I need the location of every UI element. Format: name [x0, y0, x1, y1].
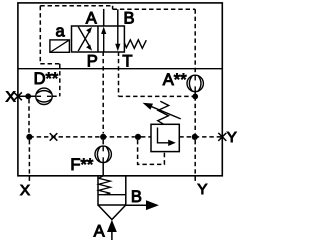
svg-text:Y: Y [197, 181, 207, 198]
pilot line relief to Y node [179, 136, 192, 138]
port Y plug cross [218, 133, 226, 141]
orifice A** to junction [194, 92, 196, 97]
svg-text:X: X [20, 182, 30, 199]
solenoid a diagonal [51, 40, 69, 52]
pilot line X branch to orifice D [52, 95, 60, 97]
svg-text:B: B [131, 188, 142, 206]
housing divider line [18, 68, 222, 70]
pilot line to relief valve [141, 136, 151, 138]
pilot line P down [102, 52, 104, 134]
orifice A** [187, 75, 203, 91]
pilot relief valve body [151, 124, 179, 151]
svg-text:D**: D** [34, 70, 59, 88]
pilot line B to A** orifice top run [113, 8, 196, 10]
plug cross lower line [50, 133, 58, 141]
pilot line P to orifice F [102, 140, 104, 146]
cartridge poppet seat V [98, 205, 126, 220]
cartridge spring [99, 176, 111, 195]
pilot enclosure dashed bottom-left stub [40, 63, 60, 65]
junction node lower X [26, 134, 32, 140]
pilot valve right box down arrow B to T [115, 26, 120, 51]
pilot line X down branch [28, 99, 30, 134]
pilot line down to A** orifice [194, 9, 196, 75]
pilot valve spring [124, 40, 146, 49]
X line into block [18, 95, 36, 97]
pilot line X branch vertical [59, 64, 61, 97]
junction node X line [25, 93, 31, 99]
junction node P line [100, 134, 106, 140]
svg-text:Y: Y [227, 129, 237, 146]
svg-text:B: B [124, 9, 135, 27]
relief valve flow path arrow [158, 128, 176, 147]
cartridge divider [98, 194, 126, 196]
pilot line Y to right edge [195, 136, 223, 138]
port X plug cross [14, 92, 22, 100]
pilot valve body U1 [72, 26, 125, 52]
relief valve sense loop [138, 140, 165, 164]
solenoid a box [50, 40, 70, 52]
pilot line T down [118, 52, 120, 97]
relief valve spring [158, 101, 169, 124]
junction node T-Y [192, 94, 198, 100]
pilot valve left box crossed arrow 2 [78, 27, 92, 51]
pilot line lower horizontal [29, 136, 134, 138]
svg-text:T: T [122, 52, 132, 70]
relief valve adjustment arrow [143, 103, 181, 119]
orifice D [36, 88, 52, 104]
port B arrow [146, 200, 159, 210]
port B line [126, 204, 147, 206]
junction node Y lower [192, 134, 198, 140]
pilot valve port A line [103, 9, 105, 26]
housing block outer rectangle [18, 3, 222, 176]
junction node relief left [135, 134, 141, 140]
svg-text:A: A [94, 223, 105, 240]
port A line [111, 231, 113, 240]
pilot valve mid line [97, 26, 99, 52]
pilot line T horizontal run [119, 95, 196, 97]
pilot line Y vertical [194, 96, 196, 133]
pilot enclosure dashed left edge [39, 6, 41, 64]
X port drop line [28, 140, 30, 182]
port A arrow [107, 220, 117, 232]
pilot valve left box crossed arrow 1 [78, 27, 92, 51]
svg-text:F**: F** [70, 156, 94, 174]
main cartridge poppet box [98, 176, 126, 205]
svg-text:P: P [87, 52, 98, 70]
orifice F to main spring chamber [102, 163, 104, 176]
orifice F [95, 146, 111, 162]
pilot line jog [112, 6, 114, 10]
svg-text:A**: A** [163, 71, 187, 89]
Y port drop line [194, 140, 196, 182]
svg-text:a: a [56, 22, 66, 40]
pilot enclosure dashed top-left edge [40, 5, 112, 7]
svg-text:X: X [6, 89, 16, 106]
pilot valve right box up arrow P to A [101, 27, 106, 52]
svg-text:A: A [86, 10, 97, 28]
pilot valve port B line [117, 9, 119, 26]
